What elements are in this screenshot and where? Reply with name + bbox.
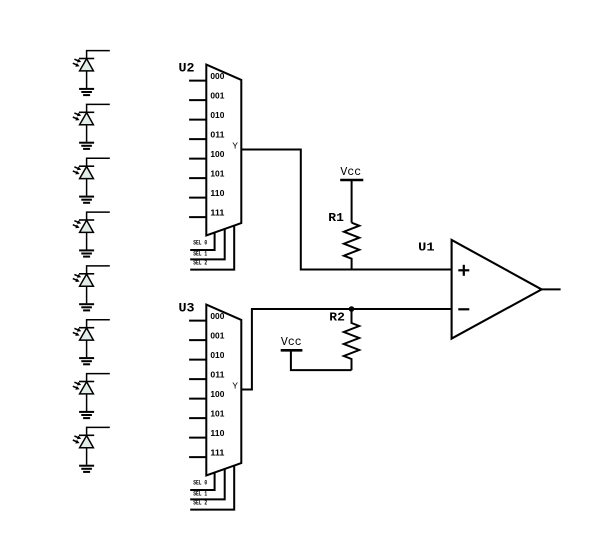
pin U2 input 010: [189, 111, 225, 120]
svg-text:110: 110: [210, 189, 225, 198]
photodiode D8: [73, 435, 94, 447]
wire photodiode D4 anode to ground: [86, 232, 88, 249]
svg-text:U1: U1: [418, 241, 434, 255]
label U2 designator: [179, 60, 195, 75]
wire photodiode D2 cathode to stub: [87, 104, 110, 113]
wire photodiode D2 anode to ground: [86, 125, 88, 142]
ground D7: [79, 412, 94, 418]
resistor R1: [328, 211, 359, 269]
wire photodiode D5 cathode to stub: [87, 266, 110, 275]
power Vcc (R2): [281, 335, 303, 351]
svg-text:U2: U2: [179, 60, 195, 75]
svg-text:Y: Y: [232, 381, 238, 392]
photodiode D3: [73, 166, 94, 178]
svg-text:Vcc: Vcc: [281, 335, 302, 349]
wire photodiode D5 anode to ground: [86, 286, 88, 303]
wire photodiode D7 anode to ground: [86, 394, 88, 411]
ground D6: [79, 358, 94, 364]
pin U2 input 101: [189, 170, 225, 179]
resistor R2: [329, 309, 359, 370]
svg-text:111: 111: [210, 209, 225, 218]
pin U3 input 010: [189, 351, 225, 360]
pin U3 input 100: [189, 390, 225, 399]
wire photodiode D6 cathode to stub: [87, 320, 110, 329]
pin U2 input 001: [189, 92, 225, 101]
svg-text:010: 010: [210, 111, 225, 120]
label U1 designator: [418, 241, 434, 255]
node junction R2 / inverting input: [349, 306, 355, 312]
wire op-amp output: [542, 288, 561, 290]
pin U3 input 111: [189, 449, 225, 458]
svg-text:101: 101: [210, 170, 225, 179]
power Vcc (R1): [340, 165, 363, 180]
svg-text:SEL 0: SEL 0: [193, 480, 207, 487]
wire photodiode D8 anode to ground: [86, 448, 88, 465]
ground D5: [79, 304, 94, 310]
photodiode D7: [73, 382, 94, 394]
svg-text:011: 011: [210, 371, 225, 380]
wire Vcc to R1: [351, 180, 353, 223]
pin U2 select SEL 2 wire: [190, 226, 234, 270]
svg-text:Y: Y: [232, 141, 238, 152]
svg-text:SEL 0: SEL 0: [193, 240, 207, 247]
svg-text:001: 001: [210, 332, 225, 341]
pin U2 input 110: [189, 189, 225, 198]
wire photodiode D3 anode to ground: [86, 179, 88, 196]
photodiode D4: [73, 220, 94, 232]
pin U2 input 111: [189, 209, 225, 218]
op-amp U1 plus input marker: [458, 265, 469, 276]
ground D2: [79, 143, 94, 149]
wire photodiode D1 cathode to stub: [87, 51, 110, 60]
wire photodiode D3 cathode to stub: [87, 158, 110, 167]
pin U3 select SEL 2 wire: [190, 466, 234, 510]
svg-text:000: 000: [210, 72, 225, 81]
wire photodiode D6 anode to ground: [86, 340, 88, 357]
svg-text:101: 101: [210, 410, 225, 419]
wire photodiode D4 cathode to stub: [87, 212, 110, 221]
pin U3 select SEL 0 wire: [190, 473, 214, 490]
pin U2 output Y: [232, 141, 238, 152]
photodiode D1: [73, 59, 94, 71]
op-amp U1 minus input marker: [458, 308, 469, 310]
label U3 designator: [179, 300, 195, 315]
photodiode D2: [73, 112, 94, 124]
svg-text:100: 100: [210, 150, 225, 159]
wire U2 Y output to op-amp non-inverting input: [241, 150, 451, 270]
wire photodiode D8 cathode to stub: [87, 427, 110, 436]
svg-text:000: 000: [210, 312, 225, 321]
photodiode D5: [73, 274, 94, 286]
multiplexer U3 body: [206, 305, 241, 476]
wire photodiode D1 anode to ground: [86, 71, 88, 88]
photodiode D6: [73, 328, 94, 340]
pin U2 select SEL 1 wire: [190, 229, 225, 259]
svg-text:110: 110: [210, 429, 225, 438]
pin U2 input 011: [189, 131, 225, 140]
pin U2 input 100: [189, 150, 225, 159]
wire R2 to Vcc: [291, 350, 352, 370]
svg-text:SEL 2: SEL 2: [193, 260, 207, 267]
svg-text:SEL 2: SEL 2: [193, 500, 207, 507]
multiplexer U2 body: [206, 65, 241, 236]
ground D1: [79, 89, 94, 95]
ground D4: [79, 250, 94, 256]
svg-text:010: 010: [210, 351, 225, 360]
svg-text:R1: R1: [328, 211, 344, 225]
pin U3 input 001: [189, 332, 225, 341]
svg-text:SEL 1: SEL 1: [193, 491, 207, 498]
wire photodiode D7 cathode to stub: [87, 374, 110, 383]
svg-text:Vcc: Vcc: [340, 165, 361, 179]
pin U3 input 011: [189, 371, 225, 380]
svg-text:011: 011: [210, 131, 225, 140]
svg-text:100: 100: [210, 390, 225, 399]
pin U2 input 000: [189, 72, 225, 81]
svg-text:SEL 1: SEL 1: [193, 251, 207, 258]
svg-text:U3: U3: [179, 300, 195, 315]
wire U3 Y output to op-amp inverting input: [241, 309, 451, 390]
pin U3 input 110: [189, 429, 225, 438]
ground D8: [79, 466, 94, 472]
pin U3 input 000: [189, 312, 225, 321]
svg-text:111: 111: [210, 449, 225, 458]
pin U2 select SEL 0 wire: [190, 233, 214, 250]
op-amp U1 body: [452, 240, 542, 339]
pin U3 input 101: [189, 410, 225, 419]
pin U3 output Y: [232, 381, 238, 392]
svg-text:001: 001: [210, 92, 225, 101]
svg-text:R2: R2: [329, 310, 345, 324]
pin U3 select SEL 1 wire: [190, 469, 225, 499]
ground D3: [79, 197, 94, 203]
